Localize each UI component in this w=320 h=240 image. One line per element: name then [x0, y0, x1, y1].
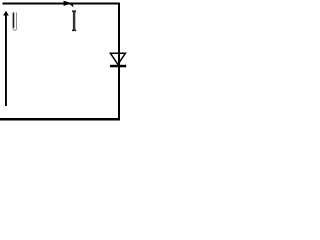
voltage arrow U: [3, 11, 9, 106]
label U: [13, 13, 17, 31]
current arrow I direction: [64, 1, 73, 6]
wire top: [3, 3, 121, 5]
wire bottom: [0, 118, 120, 121]
wire right: [118, 3, 120, 121]
diode D1: [110, 53, 126, 67]
label I: [72, 10, 76, 31]
